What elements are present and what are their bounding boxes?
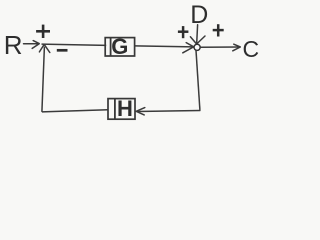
label D: [190, 1, 208, 29]
summing junction S1 (feedback up-arrow crossing): [39, 44, 49, 52]
plus sign right of D: [213, 24, 224, 36]
summing junction S2 circle: [194, 44, 200, 50]
svg-text:R: R: [4, 30, 23, 60]
wire feedback corner to block H (arrow into H): [136, 108, 200, 115]
svg-text:D: D: [190, 1, 208, 29]
wire D to S2 (disturbance arrow): [190, 25, 205, 44]
wire feedback up to S1: [42, 47, 45, 112]
svg-text:H: H: [117, 96, 133, 121]
wire S1 to block G: [42, 44, 107, 45]
wire H output to left corner: [42, 110, 108, 112]
svg-text:C: C: [242, 36, 259, 62]
wire R to summing junction S1 (input arrow): [24, 41, 40, 49]
wire S2 to C (output arrow): [200, 44, 240, 51]
label C: [242, 36, 259, 62]
wire G to summing junction S2: [135, 43, 194, 53]
label G: [111, 34, 128, 59]
label H: [117, 96, 133, 121]
block H box: [108, 99, 135, 120]
plus sign left of D: [178, 26, 189, 38]
svg-text:G: G: [111, 34, 128, 59]
label R: [4, 30, 23, 60]
block G box: [105, 38, 134, 56]
minus sign at S1: [57, 49, 68, 52]
wire S2 down (feedback tap): [196, 50, 200, 110]
plus sign at S1: [36, 25, 50, 38]
